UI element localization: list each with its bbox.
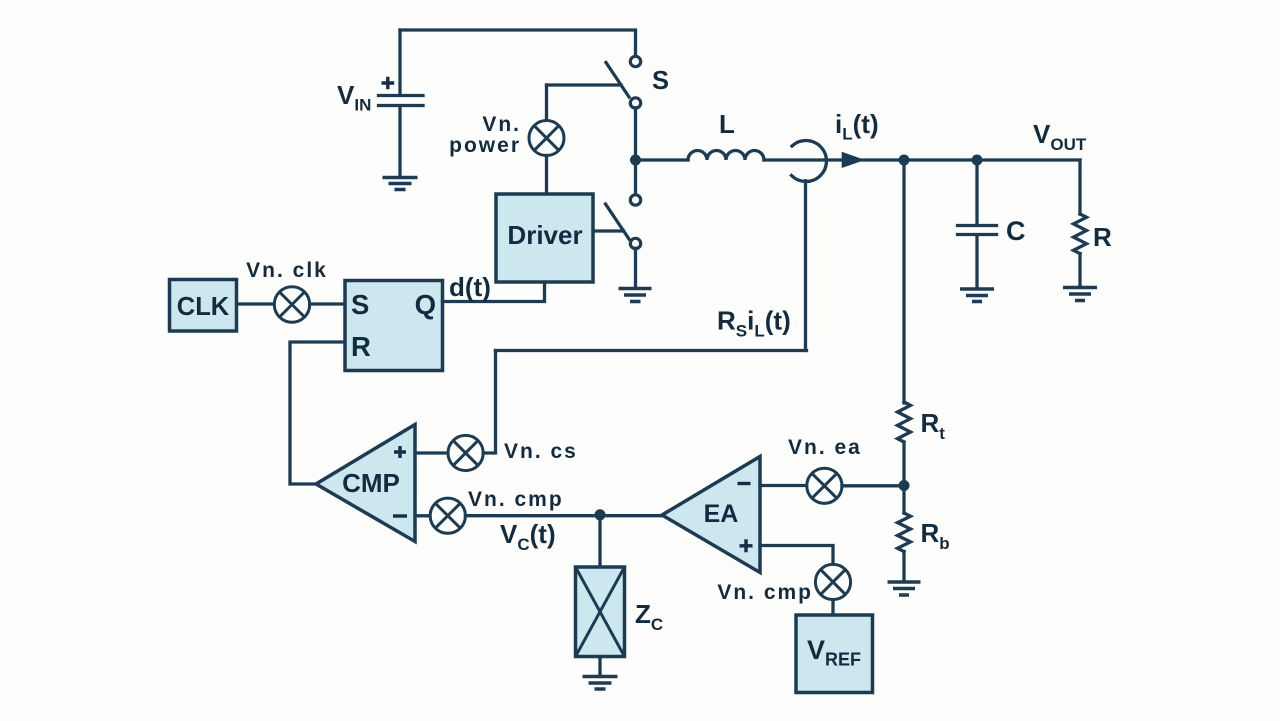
noise source Vn.clk [274, 287, 309, 322]
block CLK [170, 280, 237, 332]
svg-text:S: S [351, 289, 369, 320]
svg-text:Vn. cmp: Vn. cmp [468, 488, 564, 511]
svg-text:iL(t): iL(t) [835, 109, 879, 144]
ground ZC [583, 677, 618, 690]
node FB junction [899, 480, 910, 491]
svg-text:CMP: CMP [342, 468, 400, 498]
svg-text:L: L [719, 109, 735, 139]
minus sign EA [738, 482, 751, 485]
svg-text:VOUT: VOUT [1033, 119, 1087, 154]
capacitor C plates [958, 226, 997, 235]
svg-text:Q: Q [415, 289, 436, 320]
svg-text:power: power [449, 134, 521, 157]
svg-text:VIN: VIN [337, 80, 371, 115]
capacitor C bottom lead [975, 237, 978, 288]
ground resistor R [1063, 288, 1097, 301]
svg-text:R: R [351, 331, 371, 362]
wire Vn.power top lead [545, 85, 548, 121]
comparator CMP [316, 425, 415, 542]
wire driver control to switch lever [547, 83, 622, 86]
ground VIN [383, 178, 418, 190]
wire CMP minus input [415, 514, 430, 517]
wire CMP output to latch R [290, 342, 345, 484]
plus sign EA [740, 539, 753, 552]
wire VIN top lead [398, 30, 401, 94]
wire Vn.clk to latch S [310, 302, 345, 305]
wire EA inverting input [760, 484, 806, 487]
plus sign CMP [394, 446, 406, 458]
node VC junction [595, 509, 606, 520]
svg-text:VC(t): VC(t) [500, 519, 556, 554]
noise source Vn.cs [448, 435, 483, 470]
resistor R [1074, 214, 1087, 254]
ground capacitor C [960, 289, 994, 302]
svg-text:S: S [652, 67, 669, 95]
resistor Rb [898, 513, 911, 551]
wire Vn.ea to node FB [842, 484, 904, 487]
wire Vn.cmp to VREF [831, 600, 834, 615]
block VREF [796, 615, 873, 693]
switch S terminal lower [630, 98, 640, 108]
svg-text:EA: EA [704, 500, 739, 528]
wire VC node to EA output [465, 514, 662, 517]
wire VC to ZC [598, 515, 601, 567]
wire CMP plus input [415, 451, 448, 454]
svg-text:Rt: Rt [921, 408, 946, 443]
node SW junction [630, 155, 641, 166]
resistor R bottom lead [1078, 254, 1081, 286]
wire Driver to sync lever [593, 229, 624, 232]
svg-text:CLK: CLK [177, 293, 230, 321]
wire switch S to sync switch through node SW [634, 108, 637, 195]
svg-text:RSiL(t): RSiL(t) [717, 306, 791, 341]
wire VIN bottom lead [398, 107, 401, 176]
svg-text:Driver: Driver [507, 220, 582, 250]
noise source Vn.cmp ref [815, 564, 850, 599]
wire sense node to Rt [902, 160, 905, 403]
wire current sense RSiL [496, 349, 807, 352]
ground sync switch [619, 289, 652, 302]
wire probe sense lead [804, 181, 807, 351]
switch sync lever [606, 204, 630, 239]
svg-text:Rb: Rb [921, 518, 950, 553]
minus sign CMP [393, 514, 407, 517]
switch sync terminal upper [630, 195, 640, 205]
plus sign VIN [382, 77, 395, 89]
noise source Vn.cmp [430, 498, 465, 533]
svg-text:Vn. cmp: Vn. cmp [717, 581, 813, 604]
svg-text:R: R [1093, 222, 1112, 252]
wire EA noninverting input [760, 546, 833, 565]
svg-text:Vn.: Vn. [482, 113, 521, 136]
wire VOUT down to R [1078, 160, 1081, 214]
svg-text:d(t): d(t) [449, 272, 491, 302]
wire Rt to node FB [902, 442, 905, 513]
block SR latch [345, 281, 443, 371]
wire Vn.cs up to current sense [483, 351, 495, 454]
svg-text:C: C [1006, 216, 1026, 246]
wire Vn.power to Driver [545, 156, 548, 195]
svg-text:Vn. cs: Vn. cs [504, 440, 578, 463]
wire CLK to Vn.clk [236, 302, 274, 305]
wire ZC to ground [598, 657, 601, 676]
wire top rail VIN to switch S [400, 30, 636, 57]
op-amp EA error amplifier [662, 457, 760, 573]
switch sync terminal lower [630, 238, 640, 248]
capacitor C top lead [975, 160, 978, 224]
ground Rb [888, 582, 921, 595]
node output junction 2 [972, 155, 983, 166]
source VIN plates [379, 96, 424, 106]
impedance ZC [576, 567, 625, 657]
wire Rb to ground [902, 552, 905, 581]
svg-text:Vn. clk: Vn. clk [246, 259, 328, 282]
wire Q output to Driver d(t) [443, 282, 545, 302]
current probe iL [792, 140, 827, 181]
block Driver U1 [496, 194, 593, 282]
arrow current direction [842, 152, 865, 168]
wire sync switch to ground [634, 248, 637, 287]
resistor Rt [898, 402, 911, 442]
svg-text:ZC: ZC [635, 599, 663, 634]
node output junction 1 [899, 155, 910, 166]
inductor L [636, 158, 689, 161]
noise source Vn.ea [807, 468, 842, 503]
wire inductor to output node [764, 158, 1080, 161]
switch S lever [606, 63, 629, 98]
switch S terminal upper [630, 56, 640, 66]
noise source Vn.power [529, 121, 564, 156]
svg-text:Vn. ea: Vn. ea [788, 436, 862, 459]
